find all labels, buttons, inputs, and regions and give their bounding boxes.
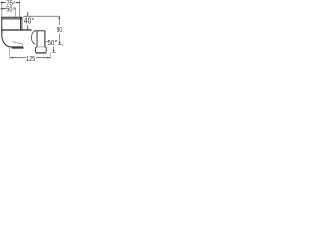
dimension 90 line lower segment with down arrow: [59, 33, 61, 44]
dimension 75 extension line right: [19, 1, 21, 17]
svg-text:50: 50: [6, 7, 12, 14]
socket right edge double line: [20, 17, 22, 30]
dimension 50 left arrow: [1, 8, 4, 10]
side view shoulder line: [37, 46, 45, 48]
dimension 75 line: [1, 2, 7, 4]
dimension 75 right arrow: [17, 2, 20, 4]
dimension 125 line: [10, 57, 26, 59]
side view rear arc: [31, 31, 35, 44]
elbow outer bend wall: [2, 30, 12, 47]
socket bottom edge with 40 tick: [1, 29, 31, 31]
side view bell bottom band: [36, 52, 46, 54]
dimension 75 extension line left: [1, 1, 3, 16]
projection line top long: [23, 15, 59, 17]
bell bottom pointer arrow: [53, 47, 55, 52]
side view top edge: [35, 30, 45, 32]
dimension 125 right arrow: [47, 57, 50, 59]
svg-text:125: 125: [26, 54, 35, 63]
elbow bell right stub: [21, 44, 24, 47]
socket left edge: [1, 17, 3, 33]
dimension 75 left arrow: [1, 2, 4, 4]
label 50 leader dash: [45, 41, 47, 43]
socket top edge double line: [1, 16, 22, 18]
side view pipe right edge: [44, 31, 46, 47]
dimension 40 top tick: [24, 15, 32, 17]
svg-text:90: 90: [57, 25, 62, 34]
dimension 125 extension line right: [49, 52, 51, 59]
dimension 125 extension line left: [9, 48, 11, 59]
side view pipe left inner edge: [36, 31, 38, 47]
bell bottom pointer tick: [52, 52, 56, 54]
svg-text:50: 50: [48, 38, 55, 47]
dimension 40 line upper segment with down arrow: [27, 12, 29, 16]
dimension 90 line upper segment: [58, 16, 60, 25]
dimension 90 bottom tick: [58, 44, 64, 46]
dimension 125 left arrow: [10, 57, 13, 59]
dimension 40 line lower segment with down arrow: [27, 25, 29, 30]
svg-text:ø: ø: [32, 17, 34, 21]
elbow outlet right lip: [22, 47, 24, 49]
dimension 50 extension line right: [15, 8, 17, 17]
elbow bell shoulder arc: [13, 41, 22, 43]
side view bell: [36, 47, 47, 53]
elbow outlet mouth band: [12, 46, 23, 48]
dimension 50 line: [1, 8, 7, 10]
